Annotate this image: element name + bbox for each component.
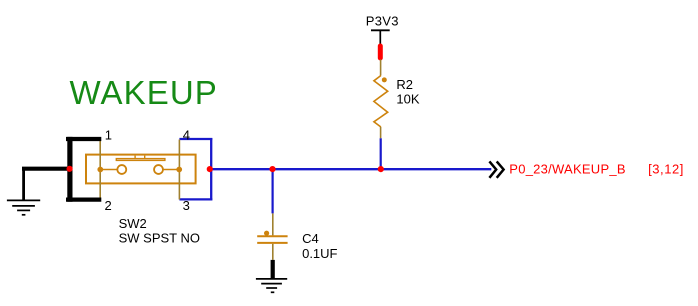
switch SW2 left lead: [100, 169, 117, 171]
capacitor C4 top lead: [272, 213, 274, 235]
svg-text:10K: 10K: [396, 92, 419, 107]
resistor R2 body: [374, 76, 388, 128]
svg-text:0.1UF: 0.1UF: [302, 246, 337, 261]
switch SW2 pin 4-3 stem: [178, 140, 180, 200]
wire thick black to ground: [22, 167, 70, 171]
svg-text:R2: R2: [396, 77, 413, 92]
svg-text:[3,12]: [3,12]: [648, 161, 684, 176]
resistor R2 top lead: [380, 60, 382, 76]
junction dot at switch output: [207, 166, 213, 172]
switch SW2 left contact dot: [97, 167, 103, 173]
wire thick black pin1 horizontal: [66, 137, 101, 141]
wire switch right vertical: [210, 138, 212, 200]
capacitor C4 bottom plate: [257, 242, 287, 244]
svg-text:3: 3: [183, 198, 190, 213]
switch SW2 body: [86, 155, 196, 184]
capacitor C4 pin-1 dot: [264, 231, 269, 236]
switch SW2 right contact dot: [176, 167, 182, 173]
wire main horizontal net: [211, 168, 492, 170]
wire thick black pin2 horizontal: [66, 198, 101, 202]
svg-text:SW SPST NO: SW SPST NO: [119, 230, 200, 245]
switch SW2 right contact circle: [154, 165, 163, 174]
svg-text:1: 1: [105, 128, 112, 143]
wire pin 3 horizontal: [179, 198, 212, 200]
ground symbol left: [7, 200, 40, 214]
svg-text:WAKEUP: WAKEUP: [70, 74, 218, 111]
junction dot at C4 branch: [269, 166, 275, 172]
wire pin 4 horizontal: [179, 138, 212, 140]
wire C4 branch (blue vertical): [272, 169, 274, 213]
switch SW2 pin 1-2 stem: [99, 140, 101, 200]
resistor R2 pin-1 dot: [382, 77, 387, 82]
capacitor C4 top plate: [257, 235, 287, 237]
wire R2 to main net (blue vertical): [380, 138, 382, 169]
ground symbol under C4: [256, 279, 287, 292]
svg-text:P3V3: P3V3: [366, 13, 399, 28]
power net P3V3 red bar: [378, 44, 383, 61]
off-page connector chevron: [489, 161, 503, 177]
switch SW2 actuator tab: [135, 156, 145, 159]
wire thick black vertical bar: [67, 137, 72, 202]
switch SW2 right lead: [163, 169, 179, 171]
wire thick black C4 ground stub: [271, 260, 275, 279]
switch SW2 actuator bar: [116, 159, 165, 161]
svg-text:P0_23/WAKEUP_B: P0_23/WAKEUP_B: [509, 161, 625, 176]
power symbol P3V3 T-bar: [371, 30, 390, 44]
junction dot at R2 branch: [378, 166, 384, 172]
switch SW2 left contact circle: [117, 165, 126, 174]
junction dot at switch ground side: [67, 166, 73, 172]
svg-text:SW2: SW2: [119, 216, 147, 231]
resistor R2 bottom lead: [380, 127, 382, 138]
svg-text:2: 2: [105, 198, 112, 213]
svg-text:C4: C4: [302, 231, 319, 246]
wire left ground vertical: [22, 169, 25, 201]
capacitor C4 bottom lead: [272, 244, 274, 260]
svg-text:4: 4: [183, 128, 190, 143]
